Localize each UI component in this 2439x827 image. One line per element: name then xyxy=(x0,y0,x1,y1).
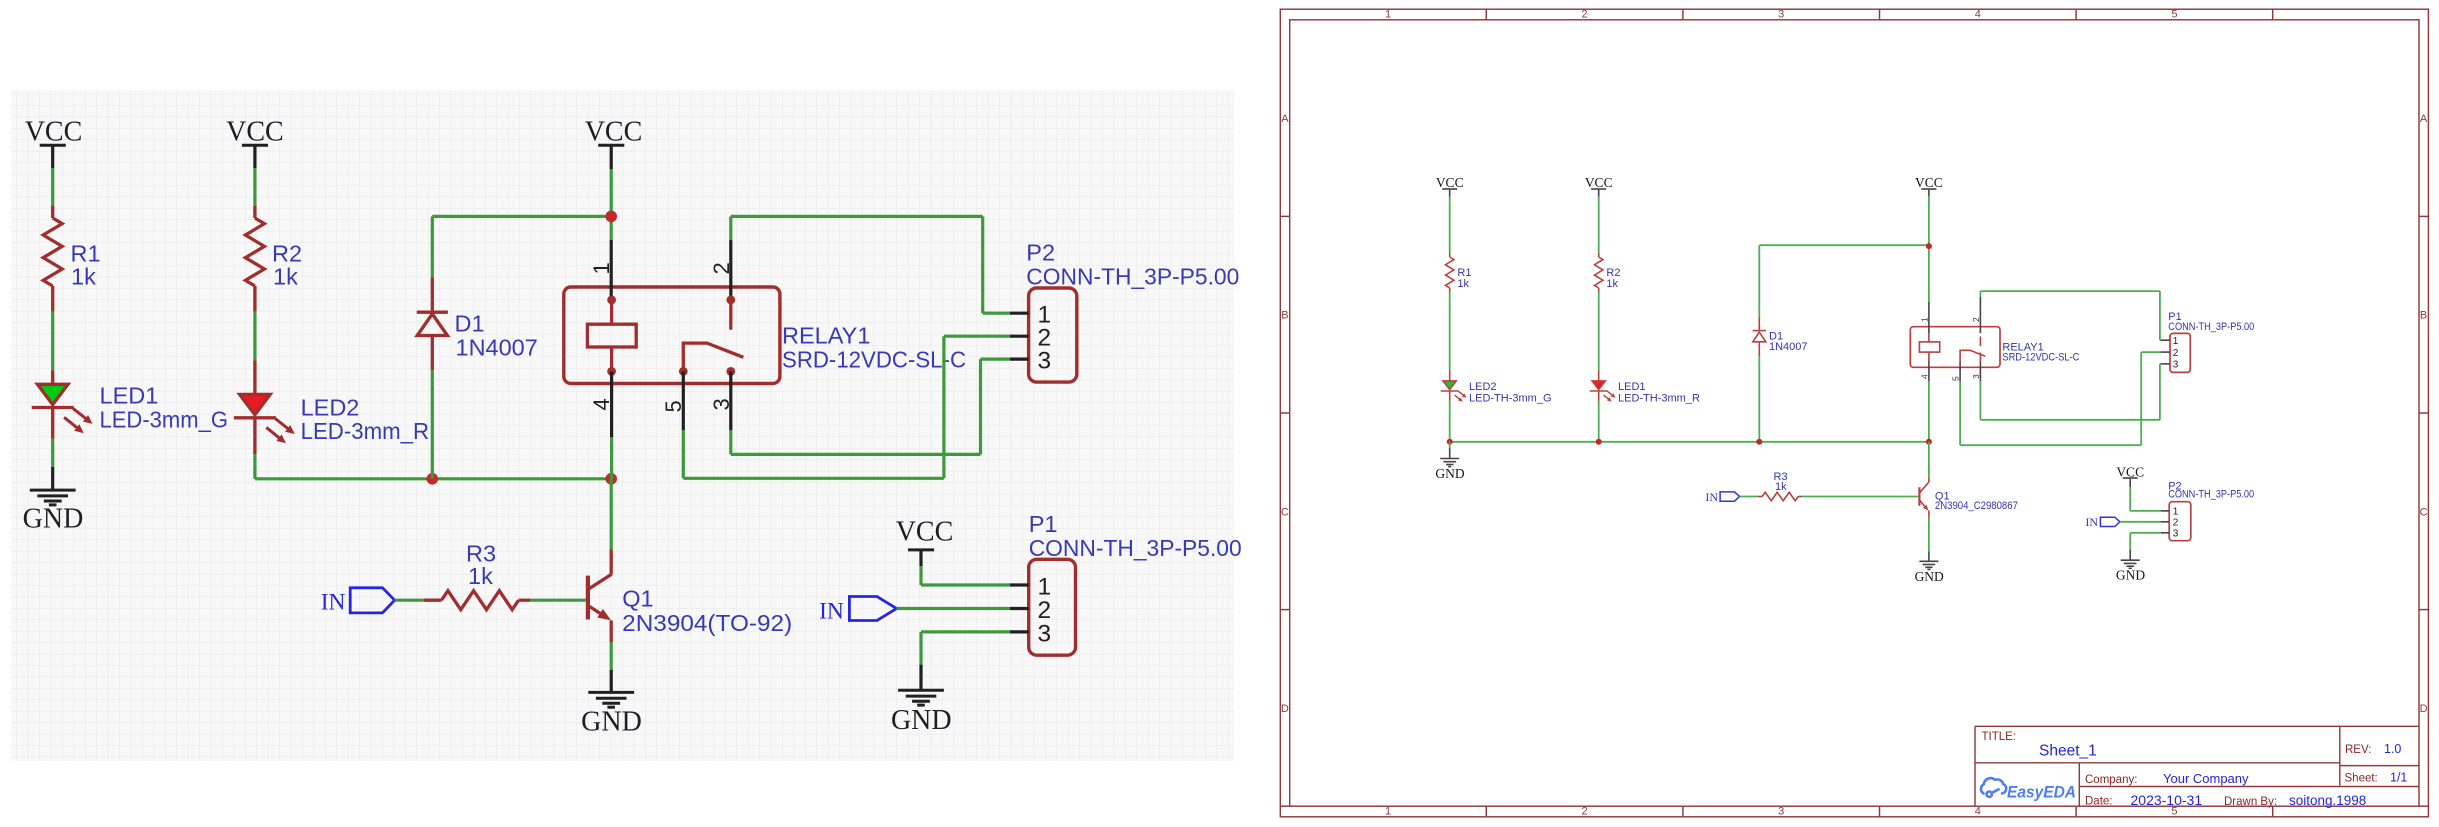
wire relay pin4 to rail (right) xyxy=(1928,381,1930,442)
resistor R3 (right) xyxy=(1758,496,1762,498)
svg-text:1k: 1k xyxy=(71,264,96,290)
wire rail to GND (right) xyxy=(1449,442,1451,450)
svg-text:2023-10-31: 2023-10-31 xyxy=(2131,792,2203,808)
relay switch arm (right) xyxy=(1960,350,1985,361)
wire VCC to P2 pin1 (right) xyxy=(2129,487,2131,511)
svg-text:1k: 1k xyxy=(1457,278,1469,290)
svg-text:EasyEDA: EasyEDA xyxy=(2007,784,2076,802)
wire D1 to bottom rail xyxy=(431,370,434,479)
svg-text:1k: 1k xyxy=(273,264,298,290)
svg-text:A: A xyxy=(2420,113,2428,125)
svg-text:soitong.1998: soitong.1998 xyxy=(2289,793,2366,808)
svg-text:2: 2 xyxy=(2173,518,2179,529)
svg-text:B: B xyxy=(2420,310,2427,322)
wire R1 to LED2 (right) xyxy=(1449,292,1451,371)
wire IN to R3 xyxy=(395,599,424,602)
ground GND (Q1 emitter) xyxy=(588,691,634,694)
svg-text:LED1: LED1 xyxy=(100,383,159,409)
svg-text:2: 2 xyxy=(1582,806,1588,818)
svg-text:GND: GND xyxy=(581,707,642,738)
wire relay pin3 to P2 pin3 xyxy=(729,430,732,454)
svg-text:Drawn By:: Drawn By: xyxy=(2224,796,2277,808)
wire IN to P2 pin2 (right) xyxy=(2120,521,2161,523)
svg-text:IN: IN xyxy=(819,599,844,625)
svg-text:VCC: VCC xyxy=(1585,175,1613,190)
svg-text:D: D xyxy=(2420,703,2428,715)
ground GND (column 1) xyxy=(30,489,76,492)
wire rail to D1 (right) xyxy=(1758,356,1760,442)
svg-text:CONN-TH_3P-P5.00: CONN-TH_3P-P5.00 xyxy=(2168,321,2254,333)
junction LED1/rail (right) xyxy=(1596,439,1602,445)
svg-text:1: 1 xyxy=(1919,317,1929,322)
wire P1 pin3 to GND xyxy=(921,630,1010,633)
svg-text:C: C xyxy=(2420,506,2428,518)
svg-text:REV:: REV: xyxy=(2345,744,2371,756)
junction Q1/rail (right) xyxy=(1926,439,1932,445)
transistor Q1 (right) xyxy=(1918,487,1920,506)
sheet outer border xyxy=(1280,9,2428,817)
wire IN to R3 (right) xyxy=(1740,496,1758,498)
svg-text:1k: 1k xyxy=(468,563,493,589)
svg-text:5: 5 xyxy=(1951,376,1961,381)
svg-text:C: C xyxy=(1281,506,1289,518)
junction VCC/D1 rail (right) xyxy=(1926,243,1932,249)
resistor R1 xyxy=(51,206,54,218)
svg-text:GND: GND xyxy=(1435,466,1464,481)
svg-text:1: 1 xyxy=(2173,507,2179,518)
ground GND (P2) xyxy=(2129,550,2131,560)
relay coil pin 4 (right) xyxy=(1928,362,1930,382)
svg-text:1k: 1k xyxy=(1775,481,1787,493)
relay switch pin 3 (right) xyxy=(1979,353,1981,362)
wire LED1 to rail (right) xyxy=(1598,401,1600,442)
ruler ticks (top/bottom) xyxy=(1485,9,1487,20)
svg-text:P2: P2 xyxy=(1026,240,1055,266)
wire R1 to LED1 xyxy=(51,312,54,371)
svg-text:1N4007: 1N4007 xyxy=(1769,341,1808,353)
wire VCC to R2 (right) xyxy=(1598,197,1600,253)
svg-text:1: 1 xyxy=(1385,806,1391,818)
svg-text:Company:: Company: xyxy=(2085,774,2137,786)
wire rail to Q1 collector (right) xyxy=(1928,442,1930,478)
relay switch pin 5 (right) xyxy=(1959,362,1961,382)
svg-text:5: 5 xyxy=(661,400,686,412)
svg-text:GND: GND xyxy=(1915,569,1944,584)
relay coil xyxy=(587,324,636,347)
svg-text:3: 3 xyxy=(1778,806,1784,818)
relay coil (right) xyxy=(1919,342,1939,352)
left panel grid background xyxy=(11,90,1234,761)
svg-text:D: D xyxy=(1281,703,1289,715)
wire VCC to R2 xyxy=(253,168,256,206)
connector P1 body (right) xyxy=(2170,333,2190,372)
svg-text:2: 2 xyxy=(1582,9,1588,21)
relay coil pin 1 (right) xyxy=(1928,302,1930,333)
svg-text:2N3904_C2980867: 2N3904_C2980867 xyxy=(1935,500,2018,512)
resistor R2 xyxy=(1598,253,1600,257)
wire relay pin5 to P1 pin2 (right) xyxy=(1959,381,1961,445)
svg-text:VCC: VCC xyxy=(1915,175,1943,190)
wire bottom rail LED2/D1/Q1 xyxy=(255,477,611,480)
svg-text:Date:: Date: xyxy=(2085,796,2113,808)
wire D1 to top rail (right) xyxy=(1758,245,1760,317)
svg-text:P1: P1 xyxy=(1029,511,1058,537)
junction at D1/bottom rail xyxy=(427,473,439,485)
relay switch arm xyxy=(679,367,688,376)
svg-text:5: 5 xyxy=(2171,9,2177,21)
diode D1 (right) xyxy=(1758,342,1760,356)
svg-text:1/1: 1/1 xyxy=(2390,771,2407,785)
resistor R2 xyxy=(253,206,256,218)
relay switch pin 2 xyxy=(729,240,732,297)
sheet inner border xyxy=(1290,20,2419,806)
wire R3 to Q1 base xyxy=(530,599,586,602)
svg-text:Sheet:: Sheet: xyxy=(2345,773,2378,785)
svg-text:IN: IN xyxy=(321,590,346,616)
svg-text:LED-3mm_R: LED-3mm_R xyxy=(301,418,430,444)
LED LED2 (red) xyxy=(253,360,256,394)
svg-text:2: 2 xyxy=(1971,317,1981,322)
svg-text:4: 4 xyxy=(589,398,614,410)
svg-text:RELAY1: RELAY1 xyxy=(782,323,870,349)
svg-text:GND: GND xyxy=(23,504,84,535)
svg-text:1: 1 xyxy=(2173,336,2179,347)
svg-text:CONN-TH_3P-P5.00: CONN-TH_3P-P5.00 xyxy=(1029,535,1242,561)
svg-text:D1: D1 xyxy=(455,311,485,337)
resistor R3 xyxy=(424,599,442,602)
svg-text:LED-3mm_G: LED-3mm_G xyxy=(100,406,229,432)
resistor R1 xyxy=(1449,253,1451,257)
wire VCC to junction xyxy=(610,169,613,216)
wire LED1 to GND xyxy=(51,439,54,467)
relay switch pin 2 (right) xyxy=(1979,297,1981,333)
svg-text:Sheet_1: Sheet_1 xyxy=(2039,743,2097,760)
wire IN to P1 pin2 xyxy=(897,607,1010,610)
svg-text:1.0: 1.0 xyxy=(2384,742,2401,756)
svg-text:2N3904(TO-92): 2N3904(TO-92) xyxy=(622,610,792,636)
wire relay pin4 to bottom rail xyxy=(610,437,613,479)
svg-text:LED-TH-3mm_R: LED-TH-3mm_R xyxy=(1618,393,1700,405)
svg-text:Your Company: Your Company xyxy=(2163,771,2249,786)
wire relay pin2 to P2 pin1 xyxy=(729,216,732,240)
LED LED2 (LED-TH-3mm_G) xyxy=(1449,371,1451,381)
svg-text:VCC: VCC xyxy=(1436,175,1464,190)
wire LED2 to rail (right) xyxy=(1449,401,1451,442)
wire relay pin2 to P1 pin1 (right) xyxy=(1979,291,1981,297)
relay coil pin 1 xyxy=(610,240,613,297)
connector P2 body (right) xyxy=(2169,502,2191,541)
svg-text:B: B xyxy=(1281,310,1288,322)
wire LED2 cathode to bottom rail xyxy=(253,454,256,479)
svg-text:3: 3 xyxy=(1038,621,1052,648)
svg-text:TITLE:: TITLE: xyxy=(1982,731,2017,743)
svg-text:2: 2 xyxy=(2173,348,2179,359)
svg-text:3: 3 xyxy=(1778,9,1784,21)
svg-text:A: A xyxy=(1281,113,1289,125)
wire VCC to relay pin1 (right) xyxy=(1928,197,1930,302)
relay switch pin 5 xyxy=(682,371,685,430)
EasyEDA logo xyxy=(1981,778,2006,797)
connector P1 body xyxy=(1029,559,1076,655)
svg-text:Q1: Q1 xyxy=(622,586,653,612)
svg-text:3: 3 xyxy=(709,398,734,410)
svg-text:CONN-TH_3P-P5.00: CONN-TH_3P-P5.00 xyxy=(2168,489,2254,501)
ground GND (P1) xyxy=(898,689,944,692)
LED LED1 (LED-TH-3mm_R) xyxy=(1598,371,1600,381)
ground GND (LED rail) xyxy=(1449,449,1451,459)
svg-text:GND: GND xyxy=(2116,568,2145,583)
junction D1/rail (right) xyxy=(1756,439,1762,445)
diode D1 (1N4007) xyxy=(431,277,434,312)
svg-text:VCC: VCC xyxy=(896,517,954,548)
svg-text:CONN-TH_3P-P5.00: CONN-TH_3P-P5.00 xyxy=(1026,264,1239,290)
svg-text:SRD-12VDC-SL-C: SRD-12VDC-SL-C xyxy=(2002,351,2079,363)
svg-text:1: 1 xyxy=(1385,9,1391,21)
transistor Q1 (NPN 2N3904) xyxy=(586,576,590,620)
svg-text:IN: IN xyxy=(2085,515,2098,529)
svg-text:VCC: VCC xyxy=(25,117,83,148)
svg-text:4: 4 xyxy=(1919,374,1929,379)
svg-text:3: 3 xyxy=(1971,374,1981,379)
svg-text:2: 2 xyxy=(709,262,734,274)
LED LED1 (green) xyxy=(51,370,54,384)
wire top rail D1 to VCC column xyxy=(432,215,611,218)
relay RELAY1 body xyxy=(564,287,780,384)
svg-text:4: 4 xyxy=(1975,806,1981,818)
wire VCC to R1 (right) xyxy=(1449,197,1451,253)
svg-text:IN: IN xyxy=(1705,490,1718,504)
svg-text:LED1: LED1 xyxy=(1618,381,1646,393)
ground GND (Q1 emitter) xyxy=(1928,551,1930,561)
title block frame xyxy=(1975,725,2419,727)
svg-text:1k: 1k xyxy=(1606,278,1618,290)
wire relay pin3 to P1 pin3 (right) xyxy=(1979,381,1981,420)
svg-text:SRD-12VDC-SL-C: SRD-12VDC-SL-C xyxy=(782,346,966,372)
wire P2 pin3 to GND (right) xyxy=(2130,532,2161,534)
svg-text:VCC: VCC xyxy=(585,117,643,148)
wire Q1 emitter to GND xyxy=(610,642,613,670)
svg-text:LED2: LED2 xyxy=(301,395,360,421)
svg-text:1N4007: 1N4007 xyxy=(456,334,538,360)
svg-text:1: 1 xyxy=(589,262,614,274)
svg-text:4: 4 xyxy=(1975,9,1981,21)
svg-text:3: 3 xyxy=(2173,360,2179,371)
relay switch pin 3 xyxy=(729,371,732,430)
wire R3 to Q1 base (right) xyxy=(1802,496,1918,498)
svg-text:3: 3 xyxy=(2173,529,2179,540)
junction at Q1 collector/bottom rail xyxy=(605,473,617,485)
relay RELAY1 body (right) xyxy=(1910,327,2000,368)
wire bottom rail (right) xyxy=(1450,441,1929,443)
svg-text:LED-TH-3mm_G: LED-TH-3mm_G xyxy=(1469,393,1552,405)
wire R2 to LED1 (right) xyxy=(1598,292,1600,371)
svg-text:LED2: LED2 xyxy=(1469,381,1497,393)
svg-text:3: 3 xyxy=(1038,348,1052,375)
junction rail/GND (right) xyxy=(1447,439,1453,445)
junction VCC/top rail xyxy=(605,211,617,223)
wire VCC to P1 pin1 xyxy=(919,566,922,585)
wire bottom rail to Q1 collector xyxy=(610,479,613,550)
svg-text:GND: GND xyxy=(891,705,952,736)
svg-text:VCC: VCC xyxy=(226,117,284,148)
connector P2 body xyxy=(1029,288,1077,382)
ruler ticks (left/right) xyxy=(1280,215,1289,217)
wire Q1 emitter to GND (right) xyxy=(1928,517,1930,551)
wire R2 to LED2 xyxy=(253,312,256,361)
relay coil pin 4 xyxy=(610,371,613,437)
wire VCC to R1 xyxy=(51,168,54,206)
wire relay pin5 to P2 pin2 xyxy=(682,430,685,478)
